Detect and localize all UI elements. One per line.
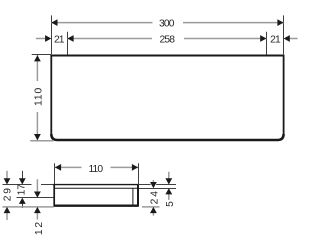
svg-text:24: 24: [149, 189, 160, 204]
svg-text:110: 110: [88, 164, 103, 175]
svg-text:21: 21: [54, 35, 65, 46]
svg-text:110: 110: [34, 87, 45, 106]
svg-text:21: 21: [270, 35, 281, 46]
svg-text:5: 5: [165, 201, 176, 207]
svg-text:258: 258: [160, 35, 176, 46]
svg-text:12: 12: [34, 220, 45, 235]
svg-text:17: 17: [17, 184, 28, 196]
svg-text:29: 29: [2, 186, 13, 201]
svg-text:300: 300: [159, 19, 175, 30]
